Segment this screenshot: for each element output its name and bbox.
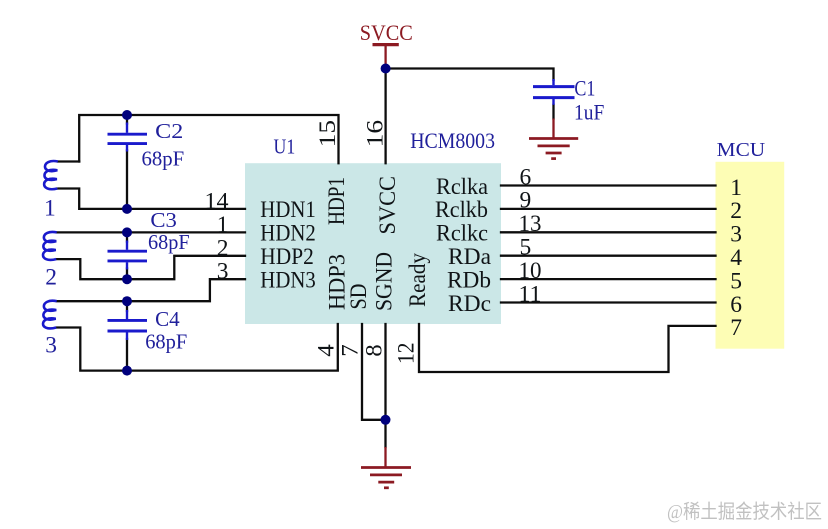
svg-text:C1: C1 bbox=[574, 76, 595, 101]
wire coil1 top link bbox=[58, 160, 79, 162]
svg-text:RDc: RDc bbox=[448, 291, 491, 317]
wire L3 bottom to pin 4 bbox=[57, 324, 338, 371]
svg-text:1: 1 bbox=[44, 196, 56, 222]
svg-text:@稀土掘金技术社区: @稀土掘金技术社区 bbox=[667, 501, 822, 523]
svg-text:HDN1: HDN1 bbox=[260, 197, 316, 223]
wire C4 top stub bbox=[126, 301, 128, 311]
ground below C1 bbox=[529, 119, 578, 159]
wire Rclka row bbox=[501, 184, 716, 186]
wire RDc row bbox=[501, 301, 716, 303]
junction node C4 top bbox=[122, 296, 132, 306]
wire L2 bottom to pin 2 bbox=[57, 256, 245, 279]
svg-text:RDa: RDa bbox=[448, 244, 492, 270]
junction node C4 bottom bbox=[122, 366, 132, 376]
junction node C2 top bbox=[122, 110, 132, 120]
svg-text:8: 8 bbox=[362, 344, 388, 357]
svg-text:7: 7 bbox=[338, 344, 364, 357]
svg-text:68pF: 68pF bbox=[148, 230, 190, 254]
svg-text:10: 10 bbox=[519, 258, 542, 284]
svg-text:2: 2 bbox=[730, 198, 742, 224]
inductor L3 bbox=[43, 301, 57, 329]
wire C4 bottom stub bbox=[126, 339, 128, 371]
capacitor C3 plates bbox=[108, 241, 148, 270]
svg-text:Rclkc: Rclkc bbox=[436, 221, 488, 247]
wire pin 7 SD down bbox=[362, 324, 386, 420]
svg-text:SGND: SGND bbox=[371, 252, 397, 311]
svg-text:HDN3: HDN3 bbox=[260, 268, 316, 294]
svg-text:12: 12 bbox=[394, 343, 420, 365]
wire RDa row bbox=[501, 255, 716, 257]
capacitor C4 plates bbox=[108, 310, 148, 340]
junction node C3 bottom bbox=[122, 274, 132, 284]
wire C2 top stub bbox=[126, 115, 128, 124]
svg-text:Ready: Ready bbox=[405, 253, 431, 307]
svg-text:C3: C3 bbox=[150, 208, 177, 232]
svg-text:3: 3 bbox=[45, 333, 57, 359]
svg-text:Rclkb: Rclkb bbox=[435, 197, 488, 223]
wire top rail L1 to pin15 bbox=[79, 115, 338, 163]
power SVCC symbol bbox=[373, 44, 399, 69]
wire Rclkc row bbox=[501, 231, 716, 233]
svg-text:3: 3 bbox=[730, 222, 742, 248]
svg-text:6: 6 bbox=[730, 292, 742, 318]
wire C1 lower black stub bbox=[552, 105, 554, 119]
junction node C3 top bbox=[122, 227, 132, 237]
svg-text:3: 3 bbox=[217, 259, 229, 285]
svg-text:HCM8003: HCM8003 bbox=[410, 128, 495, 153]
svg-text:14: 14 bbox=[205, 189, 229, 215]
wire C2 bottom stub bbox=[126, 151, 128, 209]
svg-text:C2: C2 bbox=[155, 119, 183, 143]
svg-text:HDP1: HDP1 bbox=[324, 177, 350, 225]
capacitor C1 plates bbox=[533, 79, 575, 105]
wire C3 top stub bbox=[126, 232, 128, 241]
svg-text:C4: C4 bbox=[155, 307, 180, 331]
svg-text:SVCC: SVCC bbox=[375, 176, 401, 235]
svg-text:9: 9 bbox=[520, 188, 532, 214]
svg-text:16: 16 bbox=[362, 120, 388, 148]
capacitor C2 plates bbox=[108, 123, 148, 152]
svg-text:1uF: 1uF bbox=[574, 100, 604, 125]
junction node SVCC bbox=[381, 64, 391, 74]
svg-text:5: 5 bbox=[520, 235, 532, 261]
wire Rclkb row bbox=[501, 208, 716, 210]
wire RDb row bbox=[501, 278, 716, 280]
svg-text:68pF: 68pF bbox=[142, 147, 185, 171]
svg-text:SVCC: SVCC bbox=[360, 20, 413, 45]
svg-text:1: 1 bbox=[730, 175, 742, 201]
svg-text:MCU: MCU bbox=[717, 139, 766, 161]
svg-text:11: 11 bbox=[519, 281, 542, 307]
svg-text:Rclka: Rclka bbox=[436, 174, 489, 200]
ground below SGND bbox=[361, 447, 411, 488]
wire coil1 bottom to pin 14 bbox=[58, 189, 245, 209]
svg-text:13: 13 bbox=[519, 211, 542, 237]
wire SVCC to C1 bbox=[386, 69, 554, 80]
svg-text:6: 6 bbox=[520, 164, 532, 190]
inductor L2 bbox=[43, 232, 57, 260]
svg-text:5: 5 bbox=[730, 268, 742, 294]
wire C3 bottom stub bbox=[126, 269, 128, 280]
svg-text:HDP2: HDP2 bbox=[260, 244, 314, 270]
svg-text:U1: U1 bbox=[274, 135, 296, 159]
wire L2 top to pin 1 bbox=[57, 231, 245, 233]
svg-text:RDb: RDb bbox=[447, 267, 491, 293]
svg-text:SD: SD bbox=[346, 283, 372, 309]
IC U1 body bbox=[245, 163, 501, 324]
wire L3 top to pin 3 bbox=[57, 279, 245, 301]
wire pin 12 to MCU pin 7 bbox=[419, 324, 716, 372]
svg-text:4: 4 bbox=[314, 344, 340, 357]
junction node C2 bottom bbox=[122, 204, 132, 214]
svg-text:68pF: 68pF bbox=[145, 330, 187, 354]
svg-text:2: 2 bbox=[217, 235, 229, 261]
junction node SGND bbox=[381, 415, 391, 425]
svg-text:15: 15 bbox=[315, 120, 341, 148]
connector MCU body bbox=[716, 162, 785, 349]
svg-text:7: 7 bbox=[730, 315, 742, 341]
svg-text:2: 2 bbox=[45, 265, 57, 291]
svg-text:4: 4 bbox=[730, 245, 742, 271]
svg-text:HDN2: HDN2 bbox=[260, 221, 316, 247]
inductor L1 bbox=[44, 161, 58, 189]
wire pin 8 SGND down bbox=[384, 324, 386, 447]
svg-text:1: 1 bbox=[217, 212, 229, 238]
wire SVCC to pin 16 bbox=[384, 69, 386, 164]
